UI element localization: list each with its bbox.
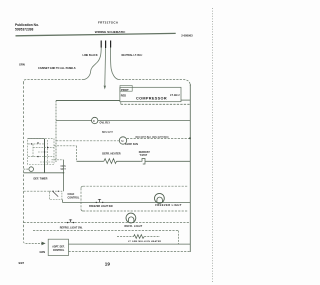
svg-text:EVAP. FAN: EVAP. FAN (125, 143, 138, 146)
wire mullion drop right (178, 231, 180, 245)
wire to cold control from bus (24, 190, 50, 192)
cold control box (49, 191, 62, 199)
svg-text:OVL RLY: OVL RLY (100, 122, 111, 125)
wire ground horizontal run (24, 80, 85, 82)
header rule (16, 33, 176, 35)
mullion heater line (117, 236, 134, 238)
svg-text:CABINET GND TO ALL PANELS: CABINET GND TO ALL PANELS (38, 67, 76, 70)
timer wire h4 (28, 156, 54, 158)
wire evap fan line left (56, 140, 119, 142)
wire line black curve (84, 48, 101, 80)
svg-text:NEUTRAL LT. BLU: NEUTRAL LT. BLU (122, 54, 143, 57)
svg-text:5995372398: 5995372398 (15, 27, 34, 31)
refrig light lamp (126, 213, 136, 223)
svg-text:FREEZER LIGHT: FREEZER LIGHT (155, 203, 182, 207)
bus left box edge (55, 101, 57, 163)
svg-text:RED: RED (121, 95, 126, 98)
wire defrost heater drop (76, 146, 78, 162)
svg-text:9/97: 9/97 (19, 261, 25, 265)
svg-text:LT. BLU: LT. BLU (170, 93, 180, 97)
power cord prong L1 (100, 41, 102, 48)
ground bus left (23, 82, 25, 242)
ground arrow into ADC (42, 242, 46, 246)
freezer light lamp (155, 193, 165, 203)
wire ground center (104, 48, 107, 86)
light circuit dashed box (81, 186, 188, 211)
timer wire vertical C (32, 144, 34, 157)
timer wire h6 (52, 159, 64, 161)
timer wire h1 (28, 143, 45, 145)
wire freezer light line (62, 201, 190, 203)
timer contact vertical B (47, 140, 49, 165)
svg-text:M: M (121, 139, 123, 143)
svg-text:PROT: PROT (121, 88, 129, 92)
timer terminal dots (31, 143, 32, 144)
svg-text:ADPT. DEF.: ADPT. DEF. (52, 246, 65, 249)
wire compressor to neutral bus (181, 99, 190, 101)
defrost timer box (28, 139, 54, 165)
svg-text:19: 19 (105, 262, 111, 267)
timer box top edge dark (28, 138, 45, 140)
wire ADC to bus dashed (69, 251, 191, 253)
timer wire h2b to heater drop (54, 145, 77, 147)
svg-text:BRN-WHT: BRN-WHT (102, 132, 113, 134)
evap fan motor circle (119, 137, 126, 144)
freezer door switch (96, 202, 97, 203)
svg-text:LINE BLACK: LINE BLACK (83, 54, 98, 57)
svg-text:DEFR. HEATER: DEFR. HEATER (102, 152, 120, 155)
adaptive defrost control box (48, 239, 68, 255)
timer wire h3 (38, 151, 48, 153)
ground arrow (104, 86, 106, 90)
power cord prong N (110, 41, 112, 48)
wire ADC to bus solid (69, 243, 191, 245)
timer cam vertical dark (44, 139, 46, 173)
svg-text:GRN: GRN (19, 63, 25, 67)
wire relay line (56, 120, 92, 122)
svg-text:LT GRN MULLION HEATER: LT GRN MULLION HEATER (128, 240, 161, 243)
svg-text:GRN: GRN (40, 251, 46, 254)
refrig door switch (67, 222, 68, 223)
wire line feed to compressor (56, 100, 120, 102)
svg-text:BRN WHT-BLK ORN-WHT BRN: BRN WHT-BLK ORN-WHT BRN (136, 137, 169, 139)
cold control switch lever (53, 192, 58, 197)
wire cold control to light line (61, 200, 63, 203)
svg-text:DEF. TIMER: DEF. TIMER (34, 178, 48, 181)
compressor box (120, 87, 181, 101)
wire neutral horizontal run (119, 80, 191, 87)
svg-text:REFRIG. LIGHT SW.: REFRIG. LIGHT SW. (60, 226, 83, 229)
svg-text:COMPRESSOR: COMPRESSOR (136, 96, 167, 100)
svg-text:FRT21TGCA: FRT21TGCA (98, 20, 119, 24)
svg-text:2-080903: 2-080903 (181, 33, 193, 37)
neutral bus right (189, 84, 191, 252)
wire bus to timer motor (24, 168, 29, 170)
svg-text:T-STAT: T-STAT (140, 154, 148, 157)
wire neutral curve (111, 48, 119, 80)
power cord prong GND (105, 41, 107, 49)
defrost heater resistor (104, 159, 117, 164)
svg-text:R: R (93, 119, 95, 123)
wire cold control feed (24, 172, 64, 174)
timer motor circle (29, 167, 34, 172)
mullion heater resistor (134, 235, 145, 239)
svg-text:CONTROL: CONTROL (68, 196, 80, 199)
wire mullion top dashed (33, 230, 179, 232)
wire defrost heater line (77, 160, 104, 162)
junction evap line to neutral bus (189, 137, 191, 139)
wire under compressor dashed (120, 102, 122, 105)
wire cold control drop (63, 160, 65, 191)
wire evap fan line right (127, 138, 191, 140)
ground bus corner to ADC (24, 242, 42, 244)
svg-text:CONTROL: CONTROL (53, 250, 65, 252)
relay circle (92, 117, 98, 123)
defrost thermostat symbol (141, 159, 145, 165)
svg-text:FREEZER LIGHT SW.: FREEZER LIGHT SW. (89, 205, 113, 208)
page right border (212, 8, 214, 283)
protector box PROT (120, 86, 132, 92)
wire refrig light line (24, 222, 191, 224)
svg-text:REFR. LIGHT: REFR. LIGHT (125, 225, 143, 228)
timer wire h2 (33, 147, 54, 149)
timer wire h5 (40, 161, 54, 163)
